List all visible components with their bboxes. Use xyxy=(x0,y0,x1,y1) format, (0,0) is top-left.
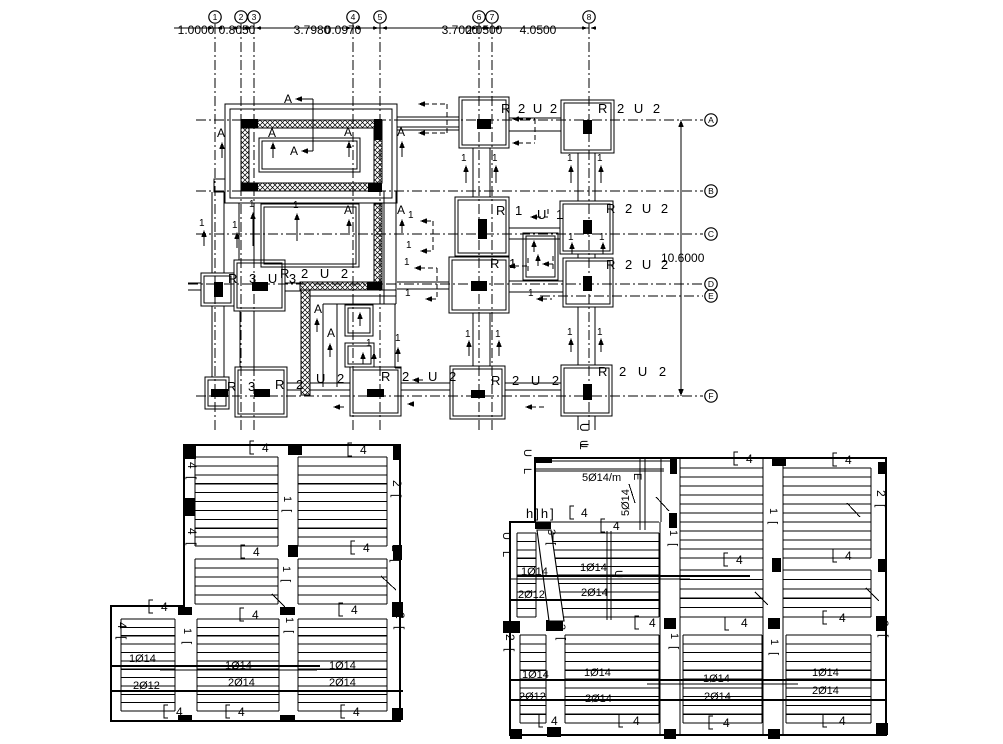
svg-text:1Ø14: 1Ø14 xyxy=(584,667,611,679)
svg-text:4: 4 xyxy=(551,714,558,728)
corridor walls center xyxy=(310,290,396,387)
svg-text:R 2 U 2: R 2 U 2 xyxy=(501,101,559,116)
svg-text:4: 4 xyxy=(262,441,269,455)
hatched wall vertical to row F xyxy=(301,290,310,395)
slab panel mid-left small xyxy=(517,533,536,617)
row C beam xyxy=(509,228,560,239)
svg-text:R 3: R 3 xyxy=(227,379,259,394)
svg-text:4: 4 xyxy=(741,616,748,630)
svg-text:1Ø14: 1Ø14 xyxy=(129,653,156,665)
rebar texts bottom-left xyxy=(129,653,356,692)
svg-text:4: 4 xyxy=(613,519,620,533)
column footing A6-7 xyxy=(459,97,509,148)
slab panel mid row right-half right xyxy=(783,570,871,617)
slab panel bottom row p1 xyxy=(520,635,546,723)
svg-text:1 [: 1 [ xyxy=(667,530,679,548)
black wall blocks on hatched ring xyxy=(241,119,382,192)
svg-text:A: A xyxy=(314,302,322,316)
court arrows xyxy=(531,240,541,266)
stair area walls xyxy=(510,458,783,735)
svg-text:0.0970: 0.0970 xyxy=(325,23,362,37)
svg-text:A: A xyxy=(268,126,276,140)
svg-text:5Ø14: 5Ø14 xyxy=(620,489,632,516)
svg-text:E: E xyxy=(708,291,714,301)
svg-text:U: U xyxy=(612,570,624,580)
svg-text:4: 4 xyxy=(176,705,183,719)
slab panel bottom row p4 xyxy=(786,635,871,723)
slab panel bottom row p3 xyxy=(683,635,762,723)
svg-text:4.0500: 4.0500 xyxy=(520,23,557,37)
row D beams xyxy=(188,281,563,292)
bottom-left plan section markers 4 xyxy=(149,441,370,719)
svg-text:1: 1 xyxy=(395,333,401,344)
svg-text:U L: U L xyxy=(521,449,533,478)
slab panel row3 extension xyxy=(121,619,175,711)
bottom-right section markers 4 xyxy=(539,452,852,730)
svg-text:1: 1 xyxy=(405,288,411,299)
mid panel inner border xyxy=(607,531,611,620)
svg-text:4: 4 xyxy=(723,716,730,730)
slab panel row1 right xyxy=(298,457,387,546)
svg-text:U 2: U 2 xyxy=(428,369,460,384)
svg-text:1: 1 xyxy=(495,329,501,340)
svg-text:4: 4 xyxy=(253,545,260,559)
svg-text:2.0500: 2.0500 xyxy=(466,23,503,37)
svg-text:U 1: U 1 xyxy=(537,207,566,222)
svg-text:R 1: R 1 xyxy=(496,203,525,218)
column footing C8 xyxy=(560,201,613,254)
bottom-right plan black blocks xyxy=(503,458,888,739)
grid 6-7 vertical beams xyxy=(473,148,490,366)
grid circles and dimension line (top) xyxy=(174,11,596,432)
bottom-left plan column blocks xyxy=(178,445,403,722)
column footing D1 xyxy=(201,273,234,306)
bottom-right slab plan outline xyxy=(510,458,886,735)
svg-text:2 [: 2 [ xyxy=(503,634,517,653)
footing labels top plan xyxy=(227,101,671,394)
svg-text:4: 4 xyxy=(353,705,360,719)
svg-text:2Ø12: 2Ø12 xyxy=(519,691,546,703)
row F beams xyxy=(287,383,561,390)
svg-text:A: A xyxy=(284,92,292,106)
slab panel row3 right xyxy=(298,619,387,711)
svg-text:2 [: 2 [ xyxy=(877,620,891,639)
svg-text:1 [: 1 [ xyxy=(281,496,293,514)
arrows with labels 1 (up) xyxy=(199,153,606,364)
grid 2-3 wall segments xyxy=(239,203,254,367)
svg-text:R 2 U 2: R 2 U 2 xyxy=(598,364,670,379)
column footing D6-7 xyxy=(449,257,509,313)
svg-text:1: 1 xyxy=(232,220,238,231)
svg-text:1: 1 xyxy=(366,338,372,349)
right area walls xyxy=(384,191,401,368)
left wall below room xyxy=(212,192,224,377)
column footing F8 xyxy=(561,365,612,416)
svg-text:2 [: 2 [ xyxy=(393,612,407,631)
svg-text:A: A xyxy=(344,203,352,217)
stair flight strip xyxy=(537,530,564,621)
svg-text:1: 1 xyxy=(465,329,471,340)
rebar texts bottom-right bottom row xyxy=(519,667,839,705)
svg-text:E: E xyxy=(631,473,643,480)
svg-text:4 [: 4 [ xyxy=(115,622,129,641)
svg-text:R 2 U 2: R 2 U 2 xyxy=(598,101,663,116)
svg-text:4: 4 xyxy=(161,600,168,614)
svg-text:A: A xyxy=(708,115,714,125)
long rebar lines bottom-right xyxy=(510,576,886,700)
svg-text:1: 1 xyxy=(408,210,414,221)
svg-text:U L: U L xyxy=(500,532,512,561)
svg-text:4: 4 xyxy=(845,453,852,467)
svg-text:2Ø14: 2Ø14 xyxy=(228,677,255,689)
svg-text:4: 4 xyxy=(649,616,656,630)
section A-A cut with leaders xyxy=(284,92,313,158)
svg-text:5: 5 xyxy=(378,12,383,22)
svg-text:4: 4 xyxy=(238,705,245,719)
svg-text:2 [: 2 [ xyxy=(389,545,403,564)
rebar texts bottom-right mid row xyxy=(518,562,608,601)
svg-text:4: 4 xyxy=(746,452,753,466)
svg-text:D: D xyxy=(708,279,714,289)
svg-text:1Ø14: 1Ø14 xyxy=(812,667,839,679)
svg-text:1: 1 xyxy=(597,153,603,164)
svg-text:1 [: 1 [ xyxy=(181,628,193,646)
vertical dimension 10.6000 xyxy=(661,120,705,396)
svg-text:1: 1 xyxy=(567,327,573,338)
svg-text:2 [: 2 [ xyxy=(390,480,404,499)
column footing F4-5 xyxy=(350,367,401,416)
svg-text:C: C xyxy=(708,229,714,239)
svg-text:8: 8 xyxy=(587,12,592,22)
svg-text:1: 1 xyxy=(492,153,498,164)
svg-text:1Ø14: 1Ø14 xyxy=(580,562,607,574)
middle room walls xyxy=(261,204,359,267)
svg-text:4: 4 xyxy=(351,12,356,22)
slab panel row2 left xyxy=(195,559,278,604)
svg-text:7: 7 xyxy=(490,12,495,22)
slab panel top row right-half left xyxy=(680,468,763,558)
svg-text:1: 1 xyxy=(406,240,412,251)
slab panel top row right-half right xyxy=(783,468,871,558)
rotated markers bottom-right plan xyxy=(500,440,891,657)
svg-text:1: 1 xyxy=(293,200,299,211)
svg-text:4: 4 xyxy=(845,549,852,563)
svg-text:1 [: 1 [ xyxy=(283,617,295,635)
svg-text:A: A xyxy=(217,126,225,140)
svg-text:R 2 U 2: R 2 U 2 xyxy=(606,201,671,216)
svg-text:5Ø14/m: 5Ø14/m xyxy=(582,472,621,484)
svg-text:4: 4 xyxy=(252,608,259,622)
svg-text:1: 1 xyxy=(528,288,534,299)
slab panel mid-left wide xyxy=(553,533,659,617)
svg-text:1: 1 xyxy=(599,232,605,243)
grid 8 vertical beams xyxy=(578,153,595,430)
top-left room outer walls xyxy=(225,104,397,203)
svg-text:2Ø14: 2Ø14 xyxy=(581,587,608,599)
inner room of top-left room xyxy=(259,138,360,172)
svg-text:0.8050: 0.8050 xyxy=(219,23,256,37)
slab panel bottom row p2 xyxy=(565,635,659,723)
svg-text:1: 1 xyxy=(567,153,573,164)
svg-text:2Ø14: 2Ø14 xyxy=(812,685,839,697)
hatched wall row D horizontal xyxy=(300,282,382,290)
svg-text:F: F xyxy=(708,391,713,401)
svg-text:B: B xyxy=(708,186,714,196)
top dimension texts xyxy=(178,23,557,37)
svg-text:4: 4 xyxy=(736,553,743,567)
svg-text:2Ø14: 2Ø14 xyxy=(704,691,731,703)
svg-text:A: A xyxy=(397,203,405,217)
svg-text:1: 1 xyxy=(404,257,410,268)
wall jog left xyxy=(214,179,225,192)
black block end of row D hatched wall xyxy=(367,282,382,290)
small room 2 xyxy=(345,343,374,367)
row grid circles A-F (right side) xyxy=(188,114,717,402)
svg-text:U: U xyxy=(577,440,589,450)
svg-text:1: 1 xyxy=(249,199,255,210)
svg-text:3: 3 xyxy=(252,12,257,22)
svg-text:R 2: R 2 xyxy=(381,369,413,384)
svg-text:4: 4 xyxy=(633,714,640,728)
svg-text:2Ø14: 2Ø14 xyxy=(329,677,356,689)
svg-text:1: 1 xyxy=(213,12,218,22)
slab panel mid row right-half left xyxy=(680,570,763,617)
svg-text:A: A xyxy=(344,125,352,139)
svg-text:A: A xyxy=(290,144,298,158)
svg-text:3 [: 3 [ xyxy=(545,529,557,547)
section A markers with arrows xyxy=(217,125,405,357)
span diagonals bottom-left xyxy=(272,576,396,607)
rotated markers bottom-left plan xyxy=(115,462,407,646)
svg-text:A: A xyxy=(327,326,335,340)
column footing A8 xyxy=(561,100,614,153)
column footing F1 xyxy=(205,377,229,409)
svg-text:R 2 U 2: R 2 U 2 xyxy=(491,373,563,388)
svg-text:4: 4 xyxy=(839,611,846,625)
svg-text:1 [: 1 [ xyxy=(767,508,779,526)
svg-text:1 [: 1 [ xyxy=(280,566,292,584)
svg-text:R 2 U 2: R 2 U 2 xyxy=(280,266,352,281)
svg-text:1: 1 xyxy=(597,327,603,338)
svg-text:1.0000: 1.0000 xyxy=(178,23,215,37)
bottom-left slab plan outline xyxy=(111,445,400,721)
svg-text:4: 4 xyxy=(360,443,367,457)
slab panel row2 right xyxy=(298,559,387,604)
row A walls and beams xyxy=(397,117,561,131)
svg-text:1 [: 1 [ xyxy=(668,633,680,651)
long rebar lines bottom-left xyxy=(110,666,403,691)
svg-text:R 2: R 2 xyxy=(275,377,307,392)
column footing D2-3 xyxy=(234,260,285,311)
hatched wall ring of top-left room xyxy=(241,120,382,282)
stair texts xyxy=(526,472,643,642)
slab panel row1 left xyxy=(195,457,278,546)
span diagonals bottom-right xyxy=(656,497,879,605)
svg-text:h]h]: h]h] xyxy=(526,506,556,521)
column footing F2-3 xyxy=(235,367,287,417)
svg-text:A: A xyxy=(397,125,405,139)
column footing C6-7 xyxy=(455,197,509,256)
column footing D8 xyxy=(563,258,613,307)
svg-text:4: 4 xyxy=(363,541,370,555)
svg-text:4: 4 xyxy=(581,506,588,520)
svg-text:U 2: U 2 xyxy=(316,371,348,386)
svg-text:1Ø14: 1Ø14 xyxy=(329,660,356,672)
svg-text:4 [: 4 [ xyxy=(185,528,199,547)
court room between columns xyxy=(523,233,558,280)
svg-text:3 [: 3 [ xyxy=(555,624,567,642)
svg-text:4: 4 xyxy=(839,714,846,728)
svg-text:2: 2 xyxy=(239,12,244,22)
svg-text:1: 1 xyxy=(568,232,574,243)
svg-text:4 [: 4 [ xyxy=(185,462,199,481)
svg-text:R 2 U 2: R 2 U 2 xyxy=(606,257,671,272)
dashed leader arrows xyxy=(333,101,553,410)
svg-text:4: 4 xyxy=(351,603,358,617)
slab panel row3 middle xyxy=(197,619,279,711)
svg-text:2 [: 2 [ xyxy=(874,490,888,509)
svg-text:1: 1 xyxy=(461,153,467,164)
svg-text:6: 6 xyxy=(477,12,482,22)
column footing F6-7 xyxy=(450,366,505,419)
small room 1 xyxy=(345,305,373,336)
svg-text:1 [: 1 [ xyxy=(768,639,780,657)
svg-text:1: 1 xyxy=(199,218,205,229)
